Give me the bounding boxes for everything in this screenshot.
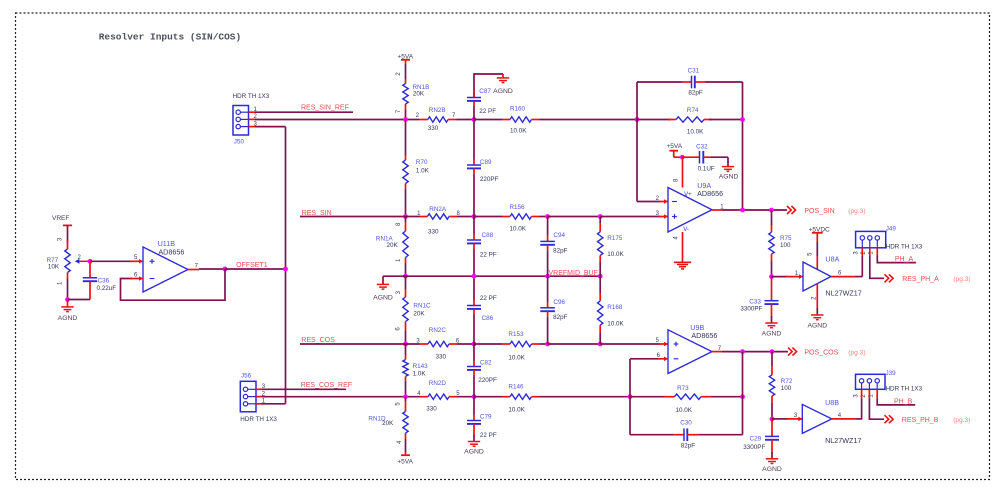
svg-text:10.0K: 10.0K [508, 354, 525, 361]
junction U9B output feedback [740, 349, 745, 354]
svg-text:3: 3 [58, 237, 64, 241]
wire U8A ground pin [816, 284, 818, 309]
junction row5 cap column [472, 394, 477, 399]
junction R77 wiper node [88, 259, 93, 264]
svg-text:20K: 20K [413, 311, 425, 318]
svg-text:C79: C79 [480, 414, 492, 421]
op-amp U9B [668, 330, 712, 374]
wire +5VDC to U8A [816, 233, 818, 242]
svg-text:HDR TH 1X3: HDR TH 1X3 [240, 416, 277, 423]
wire J50 pin3 to OFFSET1 vertical [255, 126, 286, 128]
wire row5 J56 pin2 to ladder [262, 396, 420, 398]
wire row4 C96 to R168 node [548, 343, 601, 345]
svg-text:RN2C: RN2C [429, 327, 447, 334]
wire row2 R175 node to U9A pin3 [600, 216, 660, 218]
svg-text:RN2D: RN2D [429, 380, 447, 387]
svg-text:R146: R146 [508, 383, 524, 390]
wire U8A output [831, 276, 855, 278]
svg-text:1: 1 [58, 281, 64, 285]
svg-text:C32: C32 [696, 143, 708, 150]
svg-text:VREF: VREF [52, 215, 69, 222]
resistor R75 [771, 210, 773, 225]
wire J39 pin1 to PH_B [876, 389, 878, 398]
wire row1 RN2B to cap column [457, 119, 475, 121]
capacitor C96 [547, 276, 549, 302]
junction U9B output R72 [770, 349, 775, 354]
svg-text:10.0K: 10.0K [676, 407, 693, 414]
net arrow RES_PH_B [885, 415, 894, 423]
wire J56 pin stubs [256, 388, 263, 390]
junction row1 feedback right [740, 117, 745, 122]
svg-text:82pF: 82pF [688, 90, 703, 97]
ground AGND under C33 [765, 322, 777, 324]
junction row2 cap column [472, 214, 477, 219]
junction row4 cap column [472, 342, 477, 347]
svg-text:J49: J49 [886, 225, 897, 232]
svg-text:5: 5 [134, 255, 138, 261]
svg-text:R153: R153 [508, 331, 524, 338]
svg-text:C96: C96 [553, 299, 565, 306]
wire U11B output [188, 269, 199, 271]
resistor R143 [403, 360, 408, 377]
wire VREF to R77 [67, 225, 69, 243]
junction U9A output R75 [769, 208, 774, 213]
resistor RN1A [403, 231, 408, 258]
ground under U9A [674, 261, 691, 263]
svg-text:R74: R74 [687, 107, 699, 114]
wire RES_SIN_REF stub [255, 111, 353, 113]
svg-text:POS_SIN: POS_SIN [804, 208, 834, 215]
svg-text:+5VA: +5VA [667, 143, 683, 150]
net arrow POS_COS [788, 348, 797, 356]
resistor R153 [474, 343, 502, 345]
op-amp U9A [668, 188, 712, 233]
ground AGND under C79 [468, 441, 480, 443]
wire feedback left vertical to U9A pin2 [636, 82, 638, 202]
svg-text:3: 3 [854, 394, 860, 398]
resistor R73 [630, 396, 665, 398]
svg-text:RES_PH_A: RES_PH_A [902, 276, 939, 283]
capacitor C29 [771, 419, 773, 437]
resistor RN1C [403, 297, 408, 322]
connector J39 [856, 374, 886, 389]
wire feedback left vertical to U9B pin6 [629, 359, 631, 435]
svg-text:330: 330 [426, 406, 437, 413]
wire J49 pin3 to U8A output [861, 248, 863, 256]
svg-text:U8A: U8A [825, 255, 839, 264]
svg-text:22 PF: 22 PF [480, 252, 497, 259]
wire OFFSET1 vertical [285, 127, 287, 404]
capacitor C86 [473, 276, 475, 300]
svg-text:5: 5 [396, 402, 402, 406]
svg-text:C36: C36 [98, 278, 110, 285]
junction R72 bottom [770, 417, 775, 422]
connector J49 [856, 231, 886, 247]
svg-text:3300PF: 3300PF [743, 444, 765, 451]
wire row4 R153 to C96 node [540, 343, 548, 345]
capacitor C82 [473, 344, 475, 361]
svg-text:6: 6 [134, 272, 138, 278]
svg-text:10K: 10K [48, 263, 60, 270]
resistor RN1D [403, 412, 408, 434]
buffer U8A [803, 262, 831, 291]
wire U8B output [832, 418, 856, 420]
wire U9A output [712, 209, 722, 211]
svg-text:22 PF: 22 PF [480, 432, 497, 439]
svg-text:C82: C82 [480, 360, 492, 367]
wire row2 R156 to C94 node [540, 216, 548, 218]
svg-text:V-: V- [683, 227, 689, 233]
junction row3 ladder [403, 274, 408, 279]
svg-text:10.0K: 10.0K [687, 129, 704, 136]
svg-text:R72: R72 [781, 378, 793, 385]
svg-text:AGND: AGND [762, 331, 782, 338]
wire bottom node to C36 [68, 299, 91, 301]
resistor RN2D [420, 396, 429, 398]
resistor RN1B [403, 84, 408, 105]
net arrow RES_PH_A [885, 274, 894, 282]
ground AGND under U8A [811, 314, 823, 316]
svg-text:6: 6 [395, 327, 401, 331]
svg-text:(pg.3): (pg.3) [848, 350, 865, 357]
wire J56 pin1 to OFFSET1 vertical [262, 403, 286, 405]
svg-text:8: 8 [396, 222, 402, 226]
wire OFFSET1 [225, 268, 286, 270]
svg-text:7: 7 [396, 109, 402, 113]
svg-text:2: 2 [396, 72, 402, 76]
svg-text:R75: R75 [780, 235, 792, 242]
resistor R156 [474, 216, 502, 218]
wire row2 RES_SIN [300, 216, 420, 218]
svg-text:NL27WZ17: NL27WZ17 [825, 436, 861, 445]
junction row4 R168 [598, 342, 603, 347]
svg-text:2: 2 [811, 296, 817, 300]
junction R75 bottom [769, 274, 774, 279]
wire J49 pin1 to PH_A [876, 248, 878, 256]
svg-text:10.0K: 10.0K [607, 320, 624, 327]
svg-text:R156: R156 [510, 204, 526, 211]
svg-text:R143: R143 [413, 363, 429, 370]
svg-text:6: 6 [838, 271, 842, 277]
wire ladder row2-RN1A [405, 217, 407, 223]
wire ladder row4-R143 [405, 344, 407, 355]
svg-text:AGND: AGND [762, 466, 782, 473]
svg-text:C87: C87 [479, 88, 491, 95]
svg-text:20K: 20K [382, 420, 394, 427]
wire U9B output [712, 351, 722, 353]
wire +5VA to rail [673, 151, 675, 158]
svg-text:RES_COS_REF: RES_COS_REF [301, 382, 352, 389]
resistor RN2C [420, 343, 429, 345]
resistor R168 [599, 276, 601, 293]
svg-text:VREFMID_BUF: VREFMID_BUF [549, 270, 598, 277]
junction R73 right [740, 394, 745, 399]
svg-text:AGND: AGND [58, 315, 78, 322]
junction row1 ladder [403, 117, 408, 122]
wire row4 RN2C to cap column [457, 343, 474, 345]
svg-text:RES_SIN_REF: RES_SIN_REF [301, 105, 349, 112]
wire row2 RN2A to cap column [457, 216, 474, 218]
svg-text:3300PF: 3300PF [740, 306, 762, 313]
svg-text:C29: C29 [750, 436, 762, 443]
junction OFFSET1 tap [283, 267, 288, 272]
svg-text:+5VA: +5VA [397, 458, 413, 465]
svg-text:NL27WZ17: NL27WZ17 [825, 289, 861, 298]
svg-text:220PF: 220PF [480, 176, 499, 183]
net arrow POS_SIN [787, 206, 796, 214]
junction row5 feedback left [628, 394, 633, 399]
svg-text:AGND: AGND [807, 322, 827, 329]
svg-text:220PF: 220PF [478, 377, 497, 384]
capacitor C89 [473, 120, 475, 160]
capacitor C33 [771, 277, 773, 301]
svg-text:AD8656: AD8656 [691, 331, 717, 340]
svg-text:10.0K: 10.0K [510, 225, 527, 232]
svg-text:7: 7 [452, 113, 456, 119]
svg-text:RN1C: RN1C [413, 303, 431, 310]
wire J39 pin3 to U8B output [861, 389, 863, 398]
capacitor C87 [474, 74, 503, 98]
svg-text:J56: J56 [241, 373, 252, 380]
junction row2 R175 [598, 214, 603, 219]
junction row2 ladder [403, 214, 408, 219]
svg-text:HDR TH 1X3: HDR TH 1X3 [233, 93, 270, 100]
capacitor C31 [637, 81, 682, 83]
wire feedback right vertical [742, 82, 744, 210]
junction R77 bottom node [65, 297, 70, 302]
svg-text:(pg.3): (pg.3) [953, 276, 970, 283]
junction row3 cap column [472, 274, 477, 279]
svg-text:330: 330 [428, 125, 439, 132]
svg-text:100: 100 [780, 242, 791, 249]
svg-text:AGND: AGND [373, 294, 393, 301]
wire R77 wiper [75, 259, 80, 264]
svg-text:330: 330 [428, 229, 439, 236]
svg-text:2: 2 [416, 113, 420, 119]
wire row2 C94 to R175 node [548, 216, 601, 218]
svg-text:8: 8 [674, 178, 680, 182]
op-amp U11B [143, 247, 188, 292]
wire wiper to U11B pin5 [90, 260, 132, 262]
svg-text:C30: C30 [680, 420, 692, 427]
capacitor C79 [473, 397, 475, 415]
svg-text:R73: R73 [677, 385, 689, 392]
svg-text:0.22uF: 0.22uF [97, 285, 117, 292]
resistor R146 [474, 396, 502, 398]
wire RES_COS_REF stub [262, 388, 346, 390]
svg-text:AD8656: AD8656 [697, 189, 723, 198]
resistor R74 [637, 119, 671, 121]
svg-text:(pg.3): (pg.3) [848, 208, 865, 215]
junction row1 cap column [472, 117, 477, 122]
svg-text:82pF: 82pF [553, 314, 568, 321]
svg-text:1: 1 [396, 258, 402, 262]
svg-text:20K: 20K [387, 242, 399, 249]
junction row5 ladder [403, 394, 408, 399]
svg-text:3: 3 [396, 290, 402, 294]
wire ladder row3-RN1C [405, 276, 407, 289]
svg-text:AD8656: AD8656 [158, 248, 184, 257]
wire row1 J50 pin2 to ladder [255, 119, 419, 121]
svg-text:C94: C94 [553, 232, 565, 239]
capacitor C88 [473, 217, 475, 235]
svg-text:V+: V+ [684, 192, 692, 198]
power +5VA bottom [401, 454, 410, 456]
svg-text:22 PF: 22 PF [479, 108, 496, 115]
svg-text:J39: J39 [886, 370, 897, 377]
wire row5 RN2D to cap column [457, 396, 474, 398]
svg-text:HDR TH 1X3: HDR TH 1X3 [886, 386, 923, 393]
resistor RN2A [420, 216, 428, 218]
svg-text:U8B: U8B [825, 398, 839, 407]
svg-text:1.0K: 1.0K [416, 167, 430, 174]
svg-text:82pF: 82pF [553, 248, 568, 255]
ground AGND row3 [382, 276, 384, 284]
svg-text:AGND: AGND [493, 88, 513, 95]
junction row4 C96 [545, 342, 550, 347]
capacitor C94 [547, 217, 549, 236]
wire row5 R146 to feedback node [540, 396, 631, 398]
svg-text:20K: 20K [413, 91, 425, 98]
svg-text:330: 330 [436, 354, 447, 361]
svg-text:100: 100 [781, 385, 792, 392]
capacitor C36 [89, 261, 91, 278]
svg-text:4: 4 [674, 236, 680, 240]
svg-text:22 PF: 22 PF [480, 295, 497, 302]
junction U9A output feedback [740, 208, 745, 213]
svg-text:R70: R70 [416, 159, 428, 166]
svg-text:0.1UF: 0.1UF [698, 165, 715, 172]
ground AGND under R77 [67, 300, 69, 307]
resistor R70 [403, 160, 408, 184]
junction row1 feedback left [635, 117, 640, 122]
svg-text:10.0K: 10.0K [607, 251, 624, 258]
junction row2 C94 [545, 214, 550, 219]
svg-text:3: 3 [853, 251, 859, 255]
svg-text:(pg.3): (pg.3) [953, 417, 970, 424]
svg-text:R160: R160 [510, 106, 526, 113]
resistor R72 [771, 352, 773, 366]
capacitor C30 [630, 434, 674, 436]
svg-text:RN2A: RN2A [429, 206, 447, 213]
svg-text:C88: C88 [482, 232, 494, 239]
resistor RN2B [419, 119, 428, 121]
svg-text:1.0K: 1.0K [413, 371, 427, 378]
wire ladder row5-RN1D [405, 397, 407, 401]
svg-text:Resolver Inputs (SIN/COS): Resolver Inputs (SIN/COS) [99, 31, 242, 42]
svg-text:POS_COS: POS_COS [804, 350, 838, 357]
resistor R160 [474, 119, 502, 121]
svg-text:10.0K: 10.0K [510, 128, 527, 135]
wire row4 RES_COS [300, 343, 420, 345]
svg-text:OFFSET1: OFFSET1 [236, 262, 268, 269]
ground AGND at C32 [727, 157, 729, 166]
svg-text:J50: J50 [234, 138, 245, 145]
resistor R175 [599, 217, 601, 224]
wire row3 rail [383, 275, 600, 277]
svg-text:C86: C86 [482, 315, 494, 322]
junction row3 C94 [545, 274, 550, 279]
wire +5VA to RN1B [405, 60, 407, 64]
junction U11B output node [223, 267, 228, 272]
wire J50 pin stubs [249, 111, 257, 113]
svg-text:AGND: AGND [464, 448, 484, 455]
connector J56 [240, 381, 256, 412]
junction row3 R175 [598, 274, 603, 279]
wire U11B feedback [121, 269, 226, 300]
svg-text:5: 5 [808, 252, 814, 256]
wire ladder row1-R70 [405, 120, 407, 156]
svg-text:10.0K: 10.0K [508, 407, 525, 414]
ground AGND above C87 [502, 74, 504, 78]
wire J49 pin2 to RES_PH_A [869, 248, 871, 256]
wire row1 R160 to feedback node [540, 119, 638, 121]
wire J39 pin2 to RES_PH_B [868, 389, 870, 398]
junction row4 ladder [403, 342, 408, 347]
svg-text:HDR TH 1X3: HDR TH 1X3 [886, 243, 923, 250]
svg-text:4: 4 [397, 440, 403, 444]
svg-text:R175: R175 [607, 235, 623, 242]
wire U9A V+ pin [682, 157, 684, 187]
ground AGND under C29 [766, 458, 778, 460]
svg-text:RES_PH_B: RES_PH_B [902, 417, 939, 424]
svg-text:PH_B: PH_B [894, 399, 913, 406]
svg-text:82pF: 82pF [681, 443, 696, 450]
capacitor C32 [682, 156, 699, 158]
wire R72 node to U8B input [772, 418, 788, 420]
connector J50 [233, 106, 249, 136]
svg-text:C89: C89 [480, 159, 492, 166]
svg-text:AGND: AGND [719, 173, 739, 180]
wire feedback right vertical bottom [742, 352, 744, 435]
svg-text:C31: C31 [688, 68, 700, 75]
svg-text:R168: R168 [607, 304, 623, 311]
wire U9A V- pin [682, 232, 684, 262]
wire R75 node to U8A input [772, 276, 789, 278]
svg-text:PH_A: PH_A [895, 256, 914, 263]
wire row4 R168 node to U9B pin5 [600, 343, 660, 345]
wire R77 bottom [67, 273, 69, 279]
junction C32 rail [680, 155, 685, 160]
buffer U8B [802, 404, 832, 433]
svg-text:RN2B: RN2B [429, 107, 446, 114]
